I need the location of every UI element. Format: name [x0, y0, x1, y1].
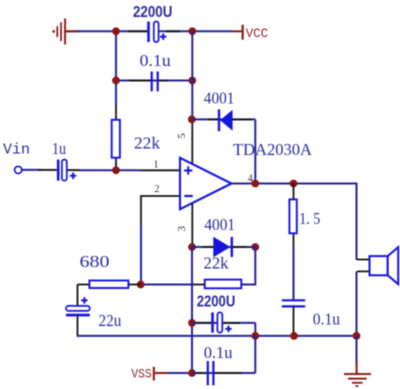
resistor R1 22k body [112, 120, 120, 158]
svg-text:2: 2 [155, 184, 160, 195]
capacitor C4 22u pin upper [77, 285, 79, 306]
wire R2 to C7 [293, 246, 295, 300]
wire feedback vertical [140, 225, 142, 285]
wire diode D2 row [192, 246, 255, 248]
capacitor C5 2200U pins [196, 322, 211, 324]
wire ground rail [77, 335, 357, 337]
capacitor C6 0.1u body [208, 361, 214, 385]
wire to pin 1 [79, 169, 141, 171]
svg-text:1u: 1u [52, 139, 66, 158]
junction dot [251, 243, 259, 251]
wire vertical mid rail [191, 31, 193, 119]
capacitor C4 22u body (vertical) [66, 297, 90, 316]
junction dot [188, 243, 196, 251]
pin 4 lead [232, 183, 256, 185]
resistor R3 22k body [205, 280, 242, 289]
capacitor C7 pin lower [293, 307, 295, 336]
speaker LS1 stubs [357, 259, 370, 261]
diode D2 4001 pins [202, 246, 214, 248]
junction dot [353, 332, 361, 340]
wire vertical left rail upper [115, 31, 117, 106]
resistor R3 pin left [194, 284, 205, 286]
junction dot [290, 332, 298, 340]
junction dot [290, 180, 298, 188]
op-amp U1 TDA2030A [180, 158, 232, 209]
op-amp plus symbol [184, 166, 192, 174]
pin 1 lead [141, 169, 180, 171]
capacitor C3 1u body [57, 160, 76, 181]
junction dot [251, 332, 259, 340]
ground GND1 top-left [53, 19, 79, 45]
junction dot [112, 166, 120, 174]
wire Vin [22, 169, 41, 171]
svg-text:4001: 4001 [204, 215, 235, 234]
junction dot [112, 27, 120, 35]
svg-text:TDA2030A: TDA2030A [233, 140, 313, 159]
svg-text:VCC: VCC [246, 26, 269, 41]
wire 0.1u row [116, 80, 192, 82]
diode D1 4001 pins [208, 118, 218, 120]
junction dot [188, 369, 196, 377]
svg-text:VSS: VSS [131, 366, 151, 381]
wire C6 to rail [254, 336, 256, 373]
wire output row [255, 184, 356, 261]
svg-text:0.1u: 0.1u [313, 310, 340, 329]
speaker LS1 body [370, 247, 399, 284]
capacitor C6 0.1u pins [196, 372, 207, 374]
wire top rail left [77, 30, 147, 32]
resistor R4 680 pins [78, 284, 90, 286]
wire feedback row [141, 284, 194, 286]
resistor R2 1.5 body [289, 199, 296, 233]
wire to ground bottom [356, 336, 358, 363]
svg-text:0.1u: 0.1u [140, 51, 171, 70]
svg-text:1. 5: 1. 5 [299, 209, 320, 228]
svg-text:22u: 22u [99, 311, 122, 330]
capacitor C3 1u pins [38, 169, 57, 171]
svg-text:2200U: 2200U [133, 4, 172, 21]
wire top rail right of cap [159, 30, 233, 32]
junction dot [137, 281, 145, 289]
capacitor C4 pin lower [77, 316, 79, 336]
svg-text:22k: 22k [134, 133, 161, 152]
pin 3 lead [191, 204, 193, 248]
capacitor C5 2200U body [211, 312, 232, 332]
wire C5 row [192, 322, 255, 324]
pin 5 lead [191, 120, 193, 163]
resistor R1 22k pins [115, 106, 117, 120]
svg-text:4001: 4001 [204, 88, 235, 107]
diode D2 4001 body [213, 237, 232, 258]
capacitor C2 0.1u pins [129, 80, 151, 82]
junction dot [188, 116, 196, 124]
svg-text:22k: 22k [204, 253, 230, 272]
svg-text:5: 5 [176, 133, 188, 139]
op-amp minus symbol [184, 195, 192, 197]
pin 2 lead [141, 196, 180, 226]
junction dot [112, 77, 120, 85]
svg-text:3: 3 [176, 226, 188, 232]
wire VSS row [167, 372, 192, 374]
power port VCC [233, 25, 268, 41]
junction dot [251, 180, 259, 188]
svg-text:680: 680 [80, 252, 110, 271]
ground GND2 bottom-right [344, 362, 371, 387]
junction dot [188, 319, 196, 327]
wire diode D1 row [192, 118, 256, 120]
capacitor C1 2200U pins [128, 30, 148, 32]
junction dot [188, 27, 196, 35]
svg-text:1: 1 [154, 160, 159, 171]
wire output vertical upper [254, 119, 256, 183]
svg-text:Vin: Vin [3, 142, 30, 159]
wire C6 row [192, 372, 255, 374]
diode D1 4001 body [219, 109, 233, 131]
svg-text:2200U: 2200U [197, 293, 236, 310]
terminal circle Vin [15, 166, 22, 173]
wire output vertical to R3 [242, 247, 256, 285]
wire C5 to rail [254, 323, 256, 336]
wire mid vertical lower [191, 247, 193, 373]
wire speaker bottom vertical [356, 271, 358, 336]
resistor R4 680 body [89, 281, 128, 289]
svg-text:0.1u: 0.1u [204, 343, 233, 362]
power port VSS [131, 366, 167, 381]
junction dot [188, 77, 196, 85]
capacitor C1 2200U body [147, 22, 166, 43]
capacitor C2 0.1u body [152, 72, 158, 92]
resistor R2 1.5 pins [293, 184, 295, 200]
capacitor C7 0.1u body (vertical) [282, 300, 305, 306]
